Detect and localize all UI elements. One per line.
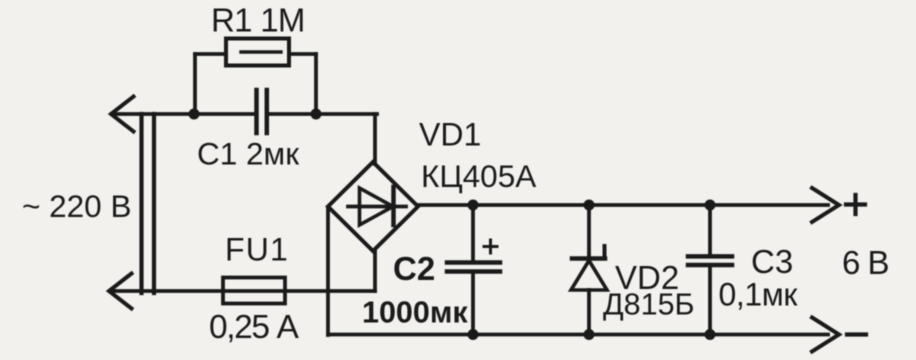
svg-text:~ 220 В: ~ 220 В [22, 188, 131, 224]
svg-text:Д815Б: Д815Б [603, 288, 695, 322]
svg-text:C1 2мк: C1 2мк [197, 136, 299, 172]
svg-text:0,1мк: 0,1мк [719, 277, 799, 313]
svg-text:0,25 А: 0,25 А [209, 309, 300, 346]
svg-text:C3: C3 [751, 243, 793, 280]
svg-text:6 В: 6 В [842, 244, 889, 281]
svg-text:КЦ405А: КЦ405А [421, 158, 536, 194]
svg-text:VD1: VD1 [419, 117, 481, 153]
svg-text:R1 1M: R1 1M [211, 2, 305, 39]
svg-text:C2: C2 [393, 250, 435, 287]
svg-text:1000мк: 1000мк [362, 296, 468, 330]
svg-text:FU1: FU1 [225, 232, 289, 268]
